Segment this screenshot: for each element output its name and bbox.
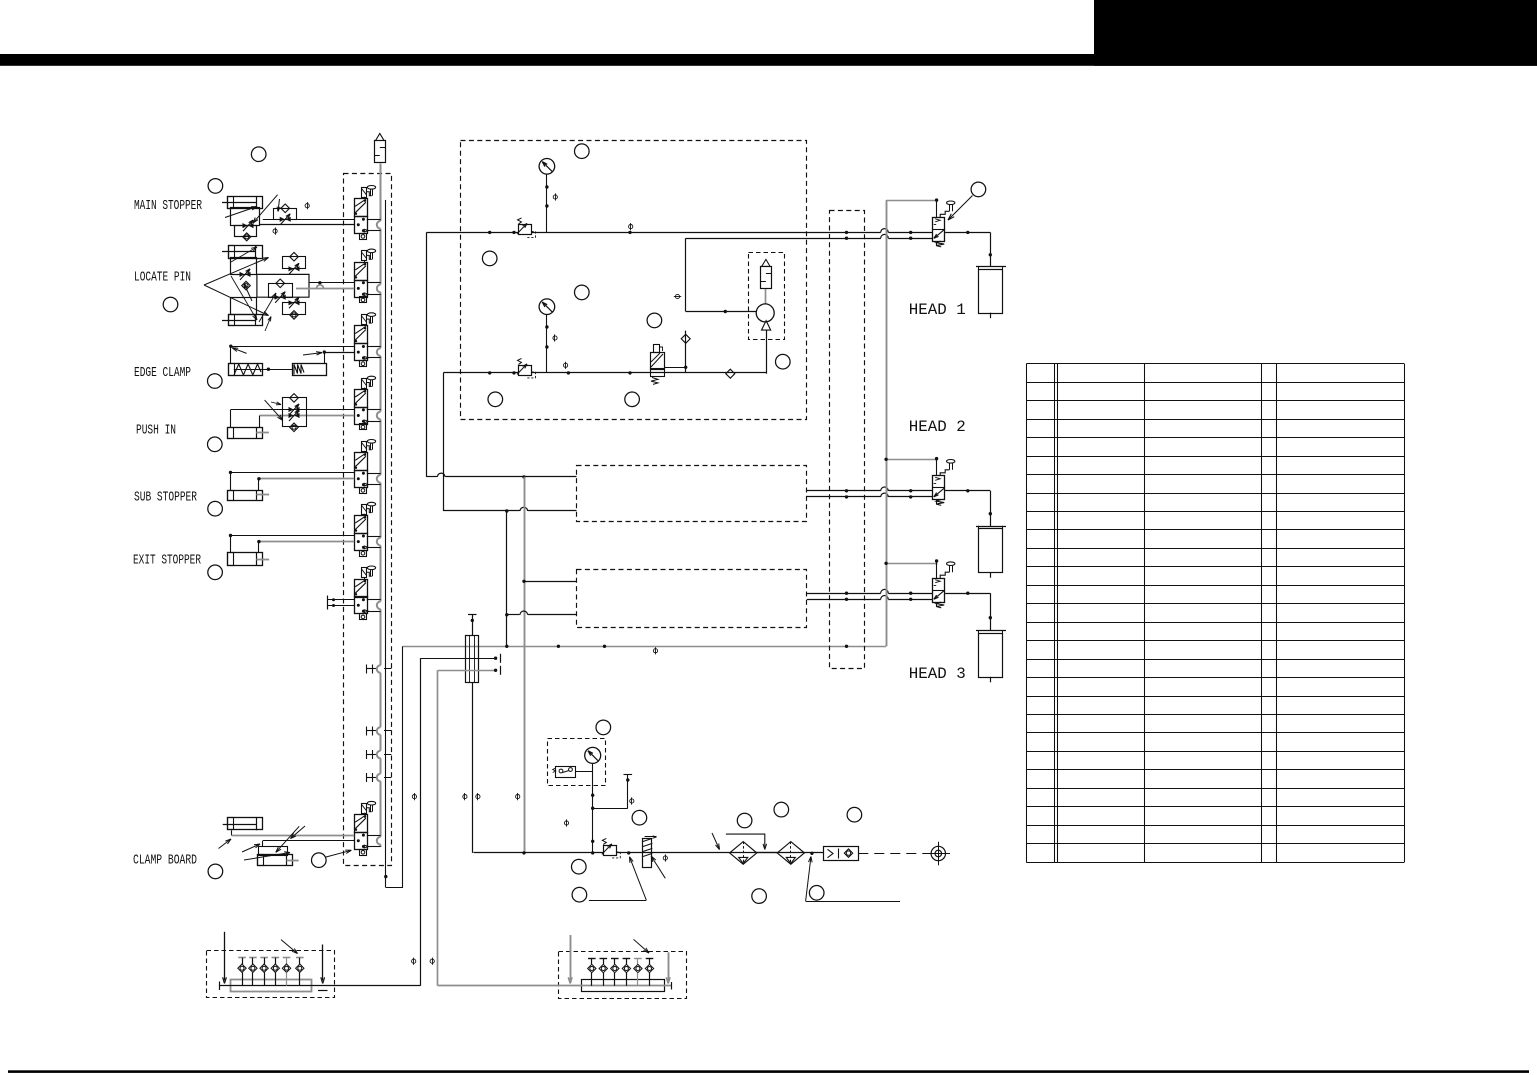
svg-text:LOCATE PIN: LOCATE PIN: [134, 270, 191, 286]
svg-text:HEAD 2: HEAD 2: [909, 418, 966, 436]
svg-text:SUB STOPPER: SUB STOPPER: [134, 490, 197, 506]
svg-text:PUSH IN: PUSH IN: [136, 423, 176, 439]
svg-text:EXIT STOPPER: EXIT STOPPER: [133, 553, 201, 569]
svg-text:HEAD 1: HEAD 1: [909, 301, 966, 319]
svg-text:EDGE CLAMP: EDGE CLAMP: [134, 365, 191, 381]
svg-text:HEAD 3: HEAD 3: [909, 665, 966, 683]
svg-text:CLAMP BOARD: CLAMP BOARD: [133, 853, 197, 869]
svg-text:MAIN STOPPER: MAIN STOPPER: [134, 198, 202, 214]
